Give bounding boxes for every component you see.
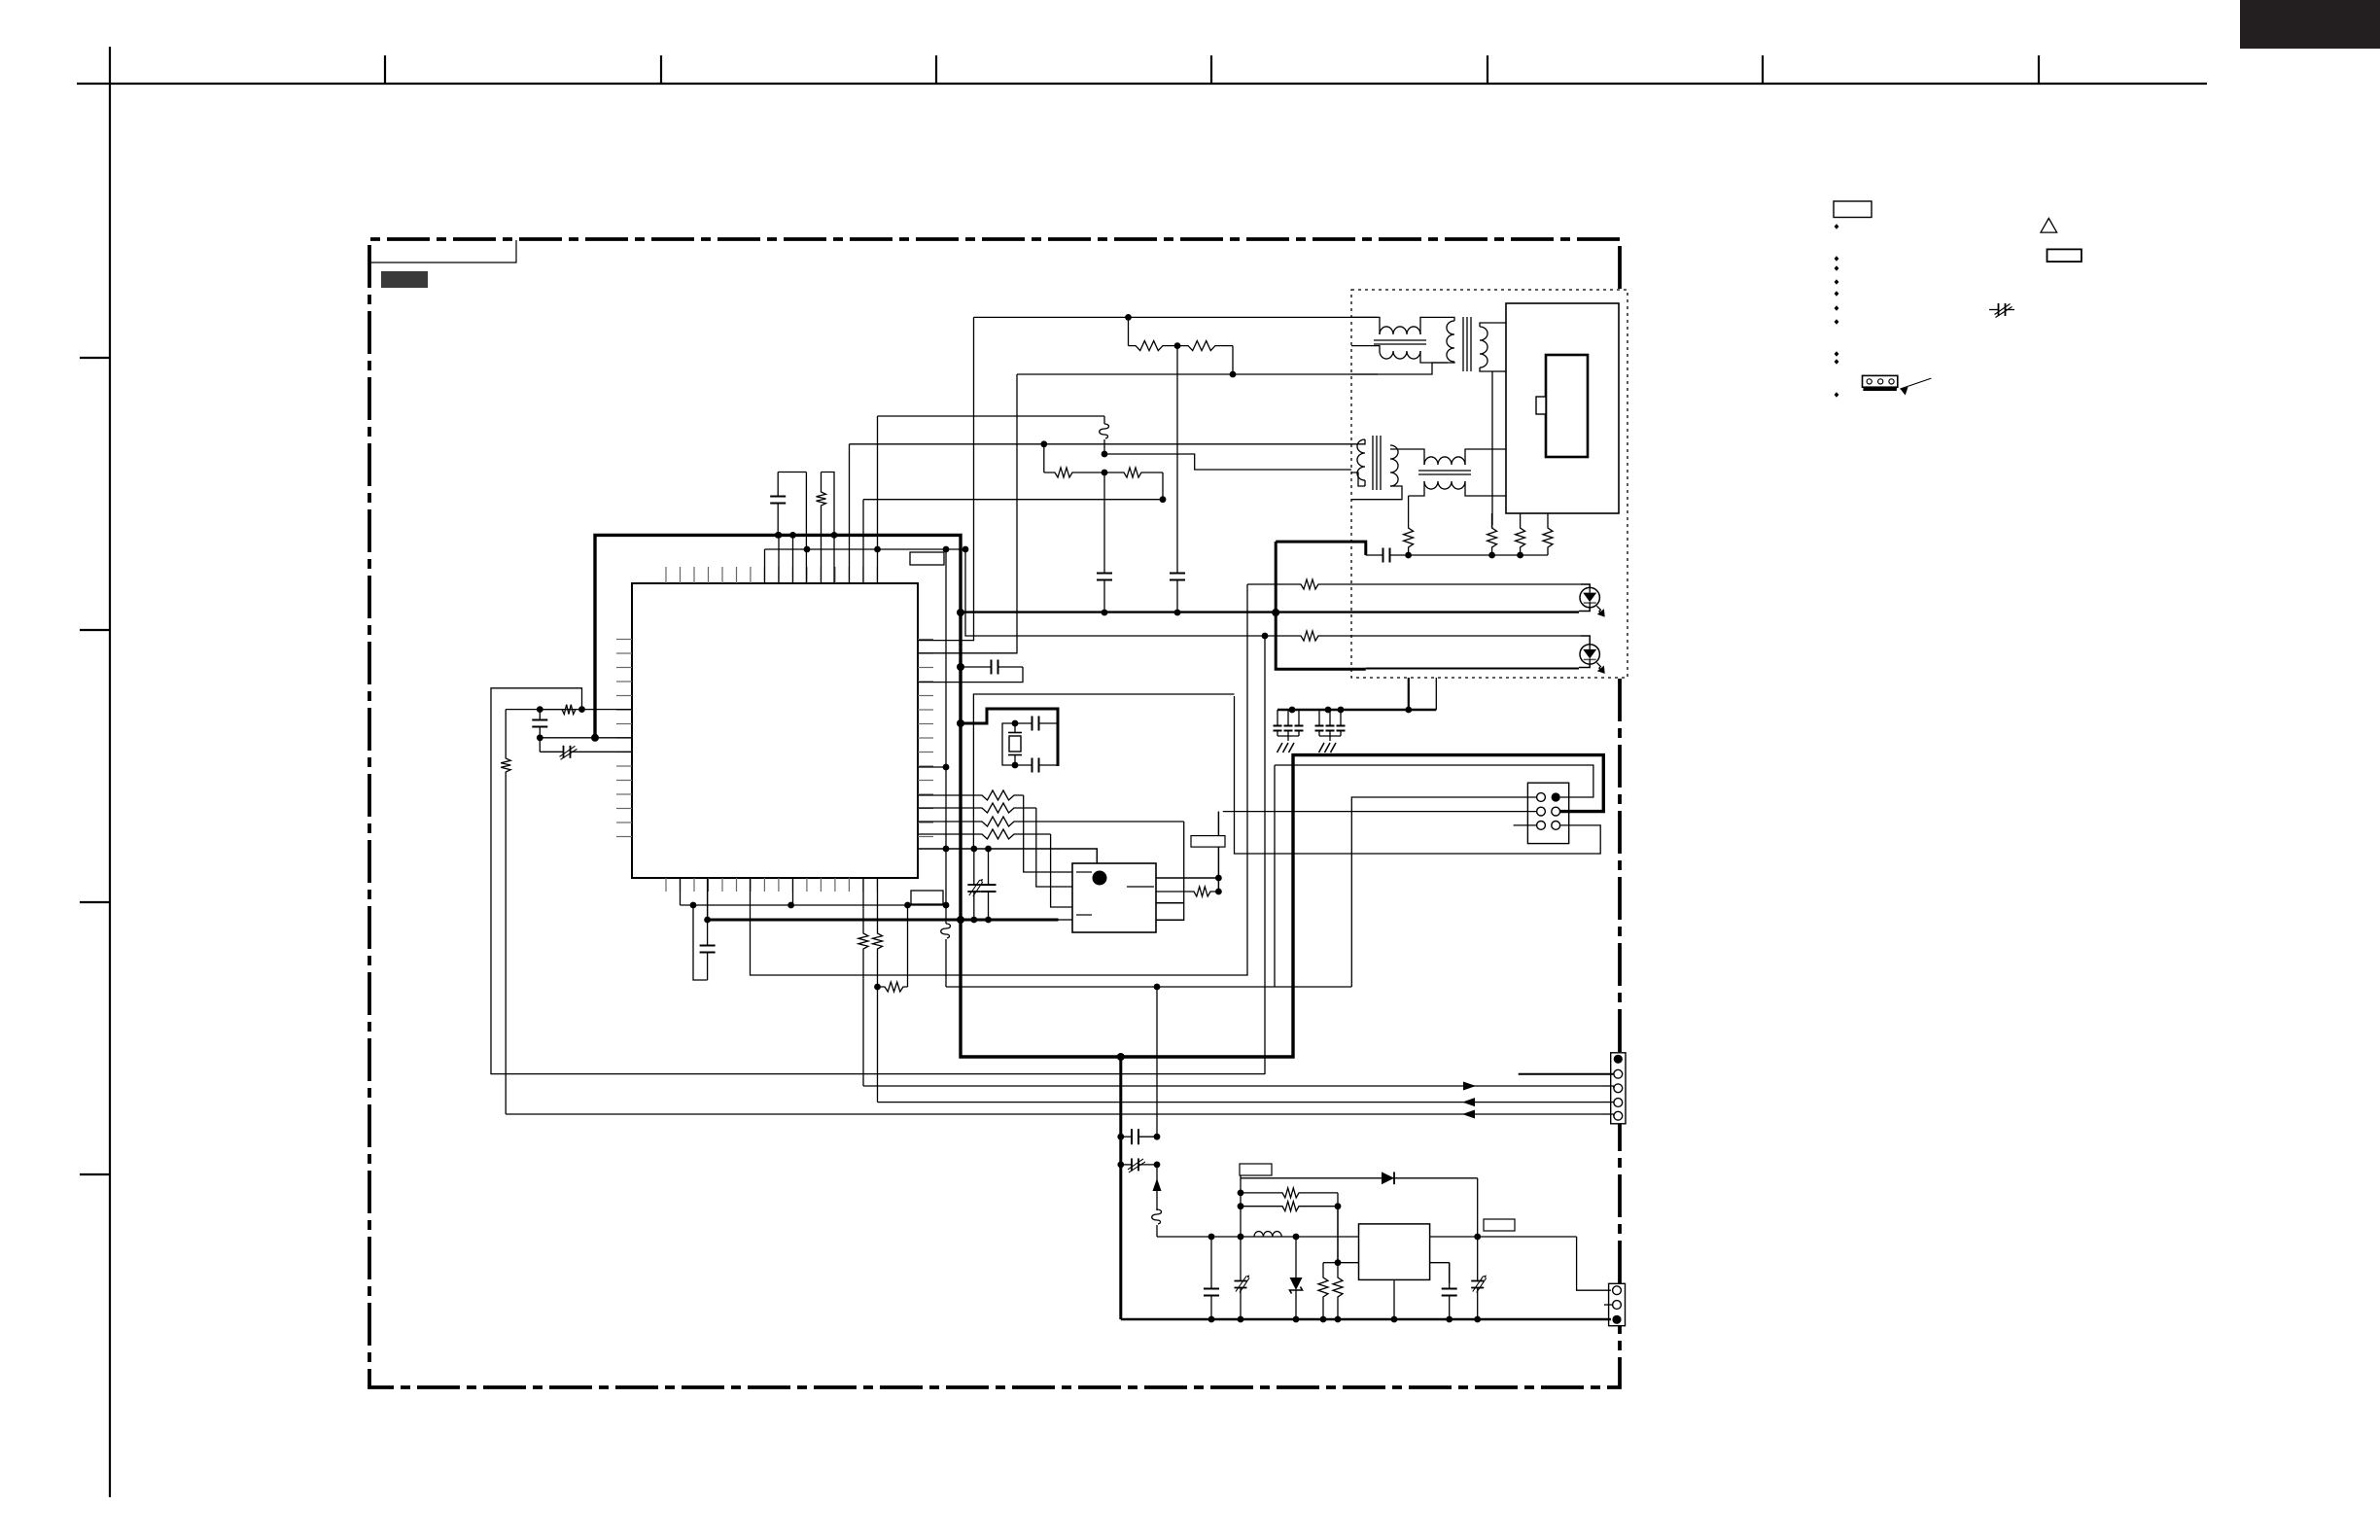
IC U1 bottom pins bbox=[666, 878, 877, 892]
board outline dash-dot frame bbox=[369, 239, 1620, 1387]
cap C15 U-loop bbox=[693, 905, 708, 980]
net row835 bbox=[1223, 811, 1537, 813]
net row3 wire bbox=[863, 1085, 1602, 1087]
net row3 link bbox=[1602, 1085, 1614, 1087]
net row849 stub bbox=[1514, 824, 1537, 826]
left rule tick 1 bbox=[80, 357, 110, 359]
net R31 drop bbox=[1024, 795, 1072, 872]
net row849 right bbox=[1235, 696, 1601, 854]
riser pin28 to VDD bbox=[792, 535, 794, 583]
junction dots bus730 bbox=[1289, 707, 1296, 714]
net row3 arrow bbox=[1463, 1082, 1476, 1091]
cap C21 on vert 1211 bbox=[1176, 346, 1178, 574]
net to CN4 bbox=[1577, 1237, 1611, 1290]
CN4 pin3 filled bbox=[1612, 1315, 1621, 1324]
net power arrow bbox=[1156, 1165, 1158, 1178]
transformer T2 windings bbox=[1447, 321, 1454, 362]
bead FB2 on 973 bbox=[945, 923, 947, 925]
legend box B bbox=[2047, 249, 2082, 262]
junction dots C41 C42 top bbox=[970, 846, 977, 853]
net 1376 col bbox=[1337, 1193, 1339, 1263]
CN4 pin2 stub bbox=[1604, 1304, 1613, 1306]
junction dots C12 bbox=[537, 734, 543, 741]
T1 lead mid bbox=[1351, 346, 1380, 351]
GND bus bottom bbox=[1121, 1318, 1611, 1321]
module M1 notch bbox=[1536, 397, 1546, 414]
net 1190 riser bbox=[1156, 987, 1158, 1137]
net pin713 wire bbox=[680, 878, 682, 905]
res R63 vertical bbox=[1318, 1263, 1328, 1319]
junction dot C11/VDD bbox=[775, 532, 782, 539]
LED D1 hookup bbox=[1581, 584, 1590, 587]
net row4 arrow bbox=[1462, 1098, 1475, 1106]
net AOUT vertical bbox=[918, 317, 974, 640]
legend scap symbol bbox=[1989, 309, 1999, 311]
junction dots C41 C42 bus bbox=[970, 917, 977, 924]
junction dots crystal bbox=[1012, 720, 1019, 727]
transformer T2 core bbox=[1462, 317, 1464, 371]
junction dots net565 bbox=[804, 546, 811, 553]
T1 lead low bbox=[1351, 363, 1448, 374]
cap C81 bbox=[1210, 1237, 1212, 1289]
net row787 bbox=[1275, 765, 1593, 797]
ground sym G2 bbox=[1319, 743, 1325, 752]
net CLK riser bbox=[491, 688, 1265, 1074]
res R62 bbox=[1241, 1202, 1338, 1211]
T1 top leads bbox=[1351, 317, 1380, 334]
top rule tick 5 bbox=[1487, 55, 1488, 84]
junction dots power rail bbox=[1208, 1234, 1215, 1241]
LED2 feed res R42 bbox=[1265, 631, 1581, 641]
junction dot 1015 bbox=[1154, 984, 1161, 991]
res R54 vertical bbox=[1543, 513, 1553, 555]
res R13 vertical bbox=[501, 710, 510, 1114]
gnd bus y730 bbox=[1277, 709, 1436, 712]
page border left rule bbox=[109, 47, 111, 1497]
page border top rule bbox=[77, 83, 2207, 85]
LED D1 bbox=[1580, 587, 1599, 607]
LED D2 hookup bbox=[1581, 636, 1590, 645]
bead FB3 bbox=[1156, 1209, 1158, 1210]
net col1253 bbox=[1217, 812, 1219, 892]
top rule tick 7 bbox=[2038, 55, 2040, 84]
riser pin29 net456 bbox=[849, 444, 851, 583]
res R21 bbox=[1129, 341, 1178, 351]
LED bold stub bbox=[1276, 542, 1366, 669]
bus GND bold y946 bbox=[708, 919, 1059, 922]
top rule tick 1 bbox=[384, 55, 386, 84]
riser pin31 to VDD bbox=[833, 535, 835, 583]
connector CN2 body bbox=[1527, 783, 1568, 843]
ferrite bead FB1 bbox=[1103, 416, 1105, 424]
optical block gnd risers bbox=[1408, 678, 1410, 710]
pin wire y789 bbox=[918, 766, 946, 768]
riser pin27 to VDD bbox=[778, 535, 780, 583]
net AOUT top wire bbox=[974, 316, 1379, 318]
junction dots C71 bbox=[1117, 1134, 1124, 1140]
net BOUT wire bbox=[1017, 373, 1378, 375]
junction dots on 973 bbox=[943, 764, 950, 771]
net R32 drop bbox=[1036, 808, 1072, 887]
IC2 right stub y929 bbox=[1156, 902, 1184, 904]
LED1 return wire bbox=[961, 611, 1579, 612]
transformer T4 core bbox=[1418, 470, 1471, 472]
junction dot AOUT bbox=[1125, 314, 1132, 321]
res R35 bbox=[1156, 887, 1218, 896]
CN3 pin1 filled bbox=[1614, 1055, 1623, 1064]
legend connector 3p bbox=[1863, 375, 1898, 387]
transformer T1 windings bbox=[1380, 327, 1420, 334]
scap C82 bbox=[1240, 1279, 1242, 1281]
transformer T1 core bbox=[1374, 339, 1426, 341]
IC3 bottom pin bbox=[1393, 1279, 1395, 1319]
riser pin26 to net565 bbox=[764, 549, 766, 583]
junction dot bold branch bbox=[1117, 1053, 1125, 1061]
res R23 bbox=[1044, 468, 1104, 477]
crystal bold branch bbox=[961, 709, 1058, 766]
IC U1 right pins bbox=[918, 640, 933, 837]
top rule tick 3 bbox=[935, 55, 937, 84]
left rule tick 3 bbox=[80, 901, 110, 903]
junction dots bus946 bbox=[704, 917, 711, 924]
net456 wire bbox=[850, 443, 1352, 445]
CN3 pin holes bbox=[1614, 1069, 1623, 1078]
junction dot C14 bbox=[957, 663, 964, 671]
net BOUT corner bbox=[1232, 346, 1234, 374]
net row5 arrow bbox=[1462, 1110, 1475, 1119]
top rule tick 4 bbox=[1210, 55, 1212, 84]
res R32 bbox=[918, 803, 1036, 813]
cap C32 bbox=[1015, 764, 1032, 766]
legend pointer arrow bbox=[1901, 378, 1932, 389]
junction dots R12 bbox=[537, 706, 543, 713]
riser pin30 net428 bbox=[877, 416, 879, 583]
IC U1 body bbox=[632, 583, 918, 878]
left rule tick 2 bbox=[80, 629, 110, 631]
junction dot VDD pin bbox=[591, 734, 599, 742]
net R13 bottom wire bbox=[506, 1113, 1602, 1115]
IC2 right stub y946 bbox=[1156, 919, 1184, 921]
res R64 vertical bbox=[1333, 1207, 1343, 1319]
junction dot 1376 rail bbox=[1335, 1259, 1342, 1266]
scap C13 bbox=[540, 751, 563, 752]
top rule tick 6 bbox=[1762, 55, 1764, 84]
scap C84 bbox=[1477, 1237, 1479, 1281]
IC2 right pin wire y903 bbox=[1156, 877, 1218, 879]
junction dots LED1 return bbox=[957, 609, 964, 616]
power rail bbox=[1211, 1236, 1359, 1238]
net R34 drop bbox=[1051, 834, 1072, 907]
junction dots GND bus bbox=[1208, 1316, 1215, 1323]
T4 lead b bbox=[1465, 449, 1506, 465]
board name label (filled) bbox=[381, 271, 428, 288]
net row4 wire bbox=[878, 1102, 1603, 1103]
wire pin y758 bbox=[540, 737, 632, 739]
res R12 bbox=[506, 705, 576, 715]
VDD dots on bold rail bbox=[776, 532, 783, 539]
T2 lead a bbox=[1448, 317, 1454, 321]
rail y571 cont bbox=[1409, 554, 1548, 556]
cap C22 on vert 1136 bbox=[1103, 472, 1105, 574]
board name tab bbox=[369, 240, 516, 262]
CN2 pin2 filled bbox=[1552, 792, 1560, 801]
net pin771 wire bbox=[751, 584, 1248, 975]
IC2 pin1 mark bbox=[1093, 871, 1107, 886]
junction dots net931 bbox=[690, 902, 697, 909]
res R22 bbox=[1177, 341, 1233, 351]
res R24 bbox=[1104, 468, 1163, 477]
connector CN4 body bbox=[1609, 1283, 1626, 1325]
junction dot BOUT bbox=[1230, 371, 1237, 378]
IC2 inner pin dashes bbox=[1076, 871, 1092, 873]
net 873 wire bbox=[918, 849, 1097, 863]
res R36 vertical bbox=[858, 878, 868, 1086]
res R34 bbox=[918, 829, 1051, 839]
regulator IC3 body bbox=[1359, 1224, 1430, 1280]
label box PS out bbox=[1484, 1219, 1515, 1231]
scap C41 bbox=[973, 849, 975, 885]
res R33 bbox=[918, 817, 1184, 826]
optical block dotted box bbox=[1351, 290, 1627, 678]
LED2 return wire bbox=[1366, 668, 1579, 670]
net 467 jog bbox=[1104, 454, 1351, 470]
transformer T3 core bbox=[1372, 436, 1374, 490]
net R33 drop bbox=[1183, 822, 1185, 921]
label box U1 bbox=[910, 552, 944, 565]
transformer T3 windings bbox=[1357, 439, 1365, 480]
legend box A bbox=[1834, 201, 1872, 218]
cap C11 above IC bbox=[777, 472, 779, 497]
rail y571 with cap C51 bbox=[1366, 554, 1383, 556]
junction dot 456 T bbox=[1040, 440, 1047, 447]
IC3 left pin2 bbox=[1338, 1262, 1359, 1264]
power rail jog bbox=[1157, 1236, 1211, 1238]
net row820 bbox=[1351, 797, 1536, 987]
res R38 bbox=[878, 982, 908, 992]
junction dot R21/R22 bbox=[1174, 342, 1181, 349]
IC U1 left pins bbox=[616, 640, 632, 837]
cap C71 bbox=[1121, 1136, 1132, 1137]
res R61 bbox=[1241, 1188, 1338, 1198]
net BOUT stub vert bbox=[918, 374, 1017, 653]
cap bank C61-C63 bbox=[1277, 710, 1278, 726]
net T2 sense drop bbox=[1491, 371, 1493, 525]
net T4 sense drop bbox=[1408, 496, 1410, 525]
junction dot crystal VDD bbox=[957, 719, 964, 727]
cap C12 bbox=[539, 710, 541, 720]
junction dots rail571 bbox=[1405, 552, 1412, 559]
bold VDD net trunk bbox=[595, 535, 1603, 1057]
cap C31 bbox=[1015, 722, 1032, 724]
legend bullet list bbox=[1835, 224, 1839, 229]
page number block bbox=[2240, 0, 2380, 49]
junction dots R61 R62 bbox=[1238, 1190, 1244, 1197]
LED D2 bbox=[1580, 645, 1599, 664]
CN4 pin holes bbox=[1613, 1286, 1622, 1295]
IC IC2 body bbox=[1072, 863, 1156, 932]
junction dot R37/1015 bbox=[874, 984, 881, 991]
stub pin30/565 link bbox=[805, 472, 807, 550]
junction dots bead net bbox=[1102, 451, 1108, 458]
pin riser 815 to 931 bbox=[792, 878, 794, 905]
top rule tick 2 bbox=[660, 55, 662, 84]
net row2 wire bbox=[1519, 1073, 1614, 1075]
T2 right leads bbox=[1480, 323, 1506, 327]
junction dots C72 bbox=[1117, 1162, 1124, 1169]
cap C14 pin decouple bbox=[961, 666, 992, 668]
LED2 feed wire bbox=[965, 549, 1265, 636]
net row4 link bbox=[1602, 1102, 1614, 1103]
legend triangle bbox=[2041, 219, 2057, 233]
diode D3 net bbox=[1241, 1177, 1478, 1179]
transformer T4 windings bbox=[1424, 457, 1465, 465]
res R37 vertical bbox=[873, 878, 883, 1102]
CN2 pin holes bbox=[1537, 793, 1546, 802]
res R52 vertical bbox=[1487, 525, 1497, 555]
scap C72 bbox=[1121, 1164, 1132, 1166]
crystal X1 bbox=[1014, 723, 1016, 733]
net 1105 riser bbox=[1264, 636, 1266, 1074]
module M1 body bbox=[1506, 303, 1619, 513]
inductor L2 bbox=[1254, 1232, 1281, 1238]
junction dot 513 bbox=[1160, 496, 1167, 503]
connector CN3 body bbox=[1611, 1053, 1626, 1124]
net 716 wire bbox=[973, 694, 1234, 849]
cap C83 bbox=[1449, 1263, 1451, 1289]
junction dot LED2 feed bbox=[1262, 633, 1269, 640]
module M1 inner bold frame bbox=[1546, 355, 1588, 457]
label box L1 bbox=[1240, 1164, 1272, 1175]
pin 727 to bus bbox=[707, 878, 709, 920]
cap bank C64-C66 bbox=[1318, 710, 1320, 726]
T4 lead a bbox=[1390, 449, 1424, 465]
net 486 cont bbox=[1162, 472, 1164, 500]
res R53 vertical bbox=[1516, 513, 1525, 555]
net556 sense vertical bbox=[945, 549, 947, 924]
res R51 vertical bbox=[1404, 525, 1414, 555]
riser pin32 net513 bbox=[862, 500, 864, 583]
junction dots IC2 right bbox=[1215, 875, 1222, 882]
diode D3 bbox=[1382, 1172, 1394, 1184]
net 1015 wire bbox=[946, 986, 1351, 988]
IC3 out rail bbox=[1430, 1236, 1577, 1238]
label box U1 bottom bbox=[911, 891, 943, 904]
IC U1 top pins bbox=[666, 567, 877, 583]
T4 lead c1 bbox=[1409, 481, 1424, 496]
bold branch to C71 bbox=[1119, 1057, 1122, 1319]
wire pin R12 to IC bbox=[582, 709, 633, 711]
net row5 link bbox=[1602, 1113, 1614, 1115]
net row787 drop bbox=[1274, 765, 1276, 987]
LED1 feed res R41 bbox=[1247, 579, 1581, 589]
zener D4 bbox=[1295, 1237, 1297, 1277]
label box IC2 bbox=[1191, 836, 1225, 848]
junction dot out rail bbox=[1474, 1234, 1481, 1241]
res R31 bbox=[918, 790, 1024, 800]
T2 lead b bbox=[1448, 362, 1454, 363]
ground sym G1 bbox=[1277, 743, 1283, 752]
res R11 above IC bbox=[817, 472, 826, 584]
cap C42 bbox=[988, 849, 990, 885]
T3 leads bbox=[1351, 439, 1365, 444]
left rule tick 4 bbox=[80, 1173, 110, 1175]
T4 lead c2 bbox=[1465, 481, 1506, 496]
net label L1 col bbox=[1240, 1175, 1242, 1279]
crystal loop left bbox=[1002, 723, 1015, 765]
